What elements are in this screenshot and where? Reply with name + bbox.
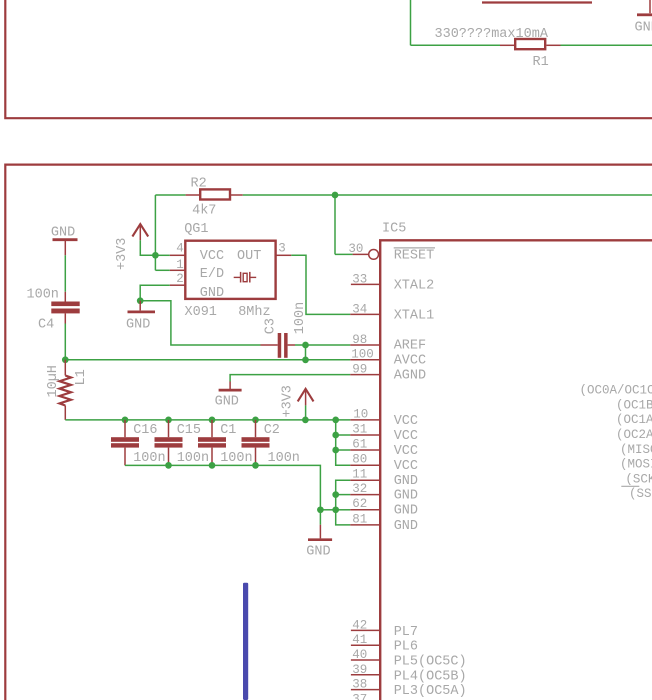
pin wire IC5 pin 39 xyxy=(351,674,379,676)
pin wire IC5 pin 100 xyxy=(350,359,379,361)
pin number 32 xyxy=(352,482,367,496)
IC5 label PL5(OC5C) xyxy=(394,655,467,670)
wire net vcc vertical xyxy=(336,420,351,465)
svg-text:(OC0A/OC1C: (OC0A/OC1C xyxy=(580,384,652,398)
IC5 label GND row3 xyxy=(394,504,418,519)
svg-text:GND: GND xyxy=(635,21,652,36)
svg-text:30: 30 xyxy=(348,242,363,256)
junction rail C15 xyxy=(165,417,172,424)
pin wire C4 top xyxy=(64,292,66,302)
supply +3V3 symbol upper xyxy=(132,224,148,240)
pin number 62 xyxy=(352,497,367,511)
svg-text:100n: 100n xyxy=(220,451,252,466)
svg-text:GND: GND xyxy=(200,286,224,301)
svg-text:X091: X091 xyxy=(185,305,217,320)
wire net C3 to AREF xyxy=(295,344,350,346)
svg-text:VCC: VCC xyxy=(394,414,418,429)
pin number 41 xyxy=(352,633,367,647)
pin wire IC5 pin 41 xyxy=(351,644,379,646)
QG1 pin number 3 xyxy=(278,241,286,255)
QG1 crystal icon xyxy=(234,272,257,283)
inductor L1 coil xyxy=(60,376,72,406)
IC5 right label (OC2A xyxy=(616,428,652,442)
QG1 pin number 2 xyxy=(176,272,184,286)
pin wire IC5 pin 30 xyxy=(353,253,369,255)
svg-text:IC5: IC5 xyxy=(382,221,406,236)
name label L1 (rotated) xyxy=(74,369,89,385)
wire net R2 right to edge xyxy=(243,194,652,196)
IC5 label VCC row1 xyxy=(394,414,418,429)
pin wire QG1 pin 4 xyxy=(170,254,185,256)
svg-text:E/D: E/D xyxy=(200,267,224,282)
svg-text:40: 40 xyxy=(352,648,367,662)
name label IC5 xyxy=(382,221,406,236)
name label R2 xyxy=(191,176,207,191)
pin wire IC5 pin 98 xyxy=(350,344,379,346)
svg-text:C16: C16 xyxy=(133,423,157,438)
svg-text:32: 32 xyxy=(352,482,367,496)
pin wire QG1 pin 2 xyxy=(170,284,185,286)
pin number 100 xyxy=(351,348,374,362)
pin wire IC5 pin 61 xyxy=(350,449,379,451)
pin wire C4 bottom xyxy=(64,313,66,323)
svg-text:GND: GND xyxy=(394,519,418,534)
pin wire IC5 pin 42 xyxy=(351,629,379,631)
pin wire L1 bottom xyxy=(64,406,66,420)
svg-text:C1: C1 xyxy=(220,423,236,438)
svg-text:99: 99 xyxy=(352,363,367,377)
svg-text:OUT: OUT xyxy=(237,249,261,264)
IC5 label PL7 xyxy=(394,625,418,640)
svg-text:VCC: VCC xyxy=(394,444,418,459)
IC5 right label (OC1A xyxy=(616,413,652,427)
ground symbol GND mid (AGND) xyxy=(215,382,242,410)
wire net R2 left vertical xyxy=(154,195,156,270)
svg-text:11: 11 xyxy=(352,468,367,482)
junction rail C2 xyxy=(252,417,259,424)
pin number 39 xyxy=(352,663,367,677)
bus B1 xyxy=(243,583,248,700)
junction rail C16 xyxy=(122,417,129,424)
value label 100n C15 xyxy=(177,451,209,466)
name label C1 xyxy=(220,423,236,438)
wire net vcc rail xyxy=(65,419,350,421)
svg-text:GND: GND xyxy=(394,489,418,504)
svg-text:4k7: 4k7 xyxy=(192,203,216,218)
pin number 31 xyxy=(352,422,367,436)
wire net +3V3 stem lower xyxy=(305,405,307,420)
svg-text:GND: GND xyxy=(126,318,150,333)
wire net to R1 left vertical xyxy=(410,0,412,45)
value label 10uH (rotated) xyxy=(46,365,61,397)
capacitor C2 xyxy=(242,420,270,466)
label +3V3 lower (rotated) xyxy=(281,385,296,417)
svg-text:GND: GND xyxy=(394,504,418,519)
capacitor C15 xyxy=(155,420,183,466)
pin wire C3 right xyxy=(288,344,295,346)
name label C4 xyxy=(38,317,54,332)
pin number 30 xyxy=(348,242,363,256)
svg-text:VCC: VCC xyxy=(394,459,418,474)
svg-text:PL6: PL6 xyxy=(394,640,418,655)
svg-text:2: 2 xyxy=(176,272,184,286)
svg-text:39: 39 xyxy=(352,663,367,677)
wire net pin61 xyxy=(336,449,351,451)
QG1 label E/D xyxy=(200,267,224,282)
svg-text:C3: C3 xyxy=(264,318,279,334)
svg-text:1: 1 xyxy=(176,258,184,272)
IC5 label AGND xyxy=(394,369,426,384)
svg-text:AVCC: AVCC xyxy=(394,354,426,369)
junction pin2 / gnd tee xyxy=(137,297,144,304)
junction rail vcc pins xyxy=(332,417,339,424)
svg-text:31: 31 xyxy=(352,422,367,436)
IC5 right label (OC1B xyxy=(616,398,652,412)
wire net R2 left xyxy=(155,194,185,196)
wire net OUT to XTAL1 xyxy=(291,255,350,314)
pin wire IC5 pin 81 xyxy=(350,524,379,526)
resistor R2 xyxy=(200,189,230,199)
name label C3 (rotated) xyxy=(264,318,279,334)
IC5 right label (OC0A/OC1C xyxy=(580,384,652,398)
junction gnd net left xyxy=(317,506,324,513)
svg-text:37: 37 xyxy=(352,692,367,700)
svg-text:C2: C2 xyxy=(264,423,280,438)
partial symbol line top (cut off component) xyxy=(482,1,592,3)
IC5 label GND row4 xyxy=(394,519,418,534)
junction vcc pin31 xyxy=(332,432,339,439)
svg-text:(MISO: (MISO xyxy=(620,443,652,457)
svg-text:GND: GND xyxy=(394,474,418,489)
frame sheet 1 border xyxy=(4,0,652,118)
pin number 38 xyxy=(352,678,367,692)
svg-text:3: 3 xyxy=(278,241,286,255)
junction AREF tee xyxy=(302,342,309,349)
value label 100n C2 xyxy=(268,451,300,466)
QG1 pin number 4 xyxy=(176,241,184,255)
svg-text:100n: 100n xyxy=(27,288,59,303)
svg-text:(MOSI: (MOSI xyxy=(620,458,652,472)
svg-text:GND: GND xyxy=(306,545,330,560)
svg-text:L1: L1 xyxy=(74,369,89,385)
svg-text:GND: GND xyxy=(51,226,75,241)
supply +3V3 symbol lower xyxy=(298,389,314,406)
pin wire IC5 pin 31 xyxy=(350,434,379,436)
junction gnd pin62 xyxy=(332,506,339,513)
ic IC5 body outline xyxy=(380,240,652,700)
wire net AREF to AVCC vertical xyxy=(305,345,307,360)
pin wire QG1 pin 3 OUT xyxy=(276,254,291,256)
svg-text:81: 81 xyxy=(352,512,367,526)
value label 8Mhz xyxy=(238,305,270,320)
svg-text:(OC2A: (OC2A xyxy=(616,428,652,442)
capacitor C16 xyxy=(111,420,139,466)
value label 4k7 xyxy=(192,203,216,218)
value label 100n C4 xyxy=(27,288,59,303)
wire net gnd vertical pins xyxy=(336,480,351,525)
wire net AVCC horizontal xyxy=(65,359,350,361)
ground symbol top right (cut off) xyxy=(635,0,652,36)
svg-text:10: 10 xyxy=(353,407,368,421)
label +3V3 upper (rotated) xyxy=(115,238,130,270)
QG1 label OUT xyxy=(237,249,261,264)
wire net C4 to junction xyxy=(64,324,66,360)
svg-text:100n: 100n xyxy=(177,451,209,466)
IC5 label PL6 xyxy=(394,640,418,655)
pin wire IC5 pin 32 xyxy=(350,494,379,496)
junction bottom rail C2 xyxy=(252,462,259,469)
svg-text:RESET: RESET xyxy=(394,249,435,264)
svg-text:PL7: PL7 xyxy=(394,625,418,640)
svg-text:(OC1B: (OC1B xyxy=(616,398,652,412)
QG1 label VCC xyxy=(200,249,224,264)
capacitor C3 plates xyxy=(278,333,288,358)
IC5 label RESET with overline xyxy=(394,248,435,264)
value label 100n C16 xyxy=(133,451,165,466)
pin wire IC5 pin 10 xyxy=(350,419,379,421)
pin wire IC5 pin 80 xyxy=(350,464,379,466)
svg-text:PL5(OC5C): PL5(OC5C) xyxy=(394,655,467,670)
IC5 pin 30 inversion bubble xyxy=(369,250,379,260)
wire net R1 left horizontal xyxy=(411,44,501,46)
wire net reset vertical xyxy=(334,195,336,254)
svg-text:10µH: 10µH xyxy=(46,365,61,397)
wire net pin32 xyxy=(336,494,351,496)
wire net gnd stem xyxy=(319,510,321,525)
IC5 label GND row2 xyxy=(394,489,418,504)
svg-text:98: 98 xyxy=(352,333,367,347)
pin wire IC5 pin 33 xyxy=(351,283,379,285)
svg-text:38: 38 xyxy=(352,678,367,692)
svg-text:C15: C15 xyxy=(177,423,201,438)
IC5 label GND row1 xyxy=(394,474,418,489)
wire net AGND xyxy=(230,375,350,382)
junction bottom rail C1 xyxy=(209,462,216,469)
pin number 37 (cut off) xyxy=(352,692,367,700)
junction AVCC tee xyxy=(302,357,309,364)
svg-text:42: 42 xyxy=(352,618,367,632)
pin number 99 xyxy=(352,363,367,377)
pin wire R2 right xyxy=(230,194,243,196)
wire net QG1 pin2 xyxy=(140,285,170,301)
pin wire R1 right xyxy=(547,44,561,46)
junction R2 net / reset tee xyxy=(332,192,339,199)
svg-text:330????max10mA: 330????max10mA xyxy=(435,27,549,42)
svg-text:VCC: VCC xyxy=(200,249,224,264)
svg-text:(OC1A: (OC1A xyxy=(616,413,652,427)
pin wire L1 top xyxy=(64,360,66,376)
pin wire IC5 pin 99 xyxy=(350,374,379,376)
pin wire R2 left xyxy=(186,194,201,196)
svg-text:8Mhz: 8Mhz xyxy=(238,305,270,320)
value label 330????max10mA xyxy=(435,27,549,42)
svg-text:61: 61 xyxy=(352,437,367,451)
svg-text:GND: GND xyxy=(215,394,239,409)
svg-text:100: 100 xyxy=(351,348,374,362)
svg-text:+3V3: +3V3 xyxy=(281,385,296,417)
pin number 33 xyxy=(352,272,367,286)
pin wire R1 left xyxy=(500,44,514,46)
name label C16 xyxy=(133,423,157,438)
pin number 80 xyxy=(352,453,367,467)
junction vcc pin61 xyxy=(332,447,339,454)
svg-text:+3V3: +3V3 xyxy=(115,238,130,270)
pin number 11 xyxy=(352,468,367,482)
wire net R1 right horizontal xyxy=(561,44,652,46)
name label C2 xyxy=(264,423,280,438)
IC5 label PL4(OC5B) xyxy=(394,669,467,684)
pin number 10 xyxy=(353,407,368,421)
svg-text:PL4(OC5B): PL4(OC5B) xyxy=(394,669,467,684)
svg-text:(SCK: (SCK xyxy=(625,472,652,486)
wire net +3V3 stem upper xyxy=(140,240,155,255)
IC5 right label (SCK xyxy=(625,472,652,486)
wire net GND to C4 xyxy=(64,255,66,291)
IC5 label AREF xyxy=(394,338,426,353)
svg-text:4: 4 xyxy=(176,241,184,255)
pin wire IC5 pin 62 xyxy=(350,509,379,511)
pin wire IC5 pin 38 xyxy=(351,689,379,691)
IC5 label VCC row3 xyxy=(394,444,418,459)
pin number 40 xyxy=(352,648,367,662)
IC5 label XTAL1 xyxy=(394,308,435,323)
svg-text:(SS: (SS xyxy=(629,487,652,501)
svg-text:100n: 100n xyxy=(268,451,300,466)
svg-text:AGND: AGND xyxy=(394,369,426,384)
IC5 label VCC row4 xyxy=(394,459,418,474)
pin number 81 xyxy=(352,512,367,526)
wire net QG1 pin4 xyxy=(155,254,169,256)
ground symbol GND under QG1 xyxy=(126,301,155,333)
frame sheet 2 border xyxy=(4,165,652,700)
svg-text:XTAL1: XTAL1 xyxy=(394,308,435,323)
name label C15 xyxy=(177,423,201,438)
QG1 label GND xyxy=(200,286,224,301)
IC5 label XTAL2 xyxy=(394,278,435,293)
pin wire C3 left xyxy=(261,344,278,346)
svg-text:100n: 100n xyxy=(293,302,308,334)
pin wire QG1 pin 1 xyxy=(170,269,185,271)
svg-text:100n: 100n xyxy=(133,451,165,466)
svg-text:62: 62 xyxy=(352,497,367,511)
svg-text:41: 41 xyxy=(352,633,367,647)
wire net reset horizontal xyxy=(335,253,353,255)
svg-text:QG1: QG1 xyxy=(184,222,208,237)
junction gnd pin32 xyxy=(332,491,339,498)
svg-text:XTAL2: XTAL2 xyxy=(394,278,435,293)
pin number 98 xyxy=(352,333,367,347)
pin number 61 xyxy=(352,437,367,451)
svg-text:PL3(OC5A): PL3(OC5A) xyxy=(394,684,467,699)
wire net QG1 pin1 xyxy=(155,269,169,271)
svg-text:AREF: AREF xyxy=(394,338,426,353)
svg-text:34: 34 xyxy=(352,302,367,316)
wire net caps bottom rail xyxy=(125,465,320,509)
wire net gnd tee to C3 run xyxy=(140,301,260,345)
value label X091 xyxy=(185,305,217,320)
wire net pin31 xyxy=(336,434,351,436)
junction C4 / AVCC / L1 xyxy=(62,356,69,363)
oscillator QG1 body xyxy=(185,241,275,299)
value label 100n C3 (rotated) xyxy=(293,302,308,334)
ground symbol GND bottom xyxy=(306,525,332,560)
capacitor C4 xyxy=(51,302,79,314)
pin wire IC5 pin 34 xyxy=(350,313,379,315)
svg-text:33: 33 xyxy=(352,272,367,286)
junction +3V3 / pin4 tee xyxy=(152,252,159,259)
pin wire IC5 pin 40 xyxy=(351,659,379,661)
pin wire IC5 pin 11 xyxy=(350,479,379,481)
pin number 42 xyxy=(352,618,367,632)
IC5 label PL3(OC5A) xyxy=(394,684,467,699)
junction bottom rail C15 xyxy=(165,462,172,469)
name label R1 xyxy=(533,55,549,70)
QG1 pin number 1 xyxy=(176,258,184,272)
wire net gnd link xyxy=(320,509,335,511)
junction rail C1 xyxy=(209,417,216,424)
IC5 label AVCC xyxy=(394,354,426,369)
IC5 right label (MOSI xyxy=(620,458,652,472)
wire net pin62 xyxy=(336,509,351,511)
capacitor C1 xyxy=(198,420,226,466)
resistor R1 xyxy=(515,39,545,49)
IC5 label VCC row2 xyxy=(394,429,418,444)
svg-text:VCC: VCC xyxy=(394,429,418,444)
ground symbol GND top left xyxy=(51,226,78,256)
IC5 right label (MISO xyxy=(620,443,652,457)
svg-text:C4: C4 xyxy=(38,317,54,332)
pin number 34 xyxy=(352,302,367,316)
name label QG1 xyxy=(184,222,208,237)
IC5 right label (SS with overline xyxy=(621,486,651,501)
value label 100n C1 xyxy=(220,451,252,466)
svg-text:80: 80 xyxy=(352,453,367,467)
junction rail +3V3 xyxy=(302,417,309,424)
svg-text:R1: R1 xyxy=(533,55,549,70)
